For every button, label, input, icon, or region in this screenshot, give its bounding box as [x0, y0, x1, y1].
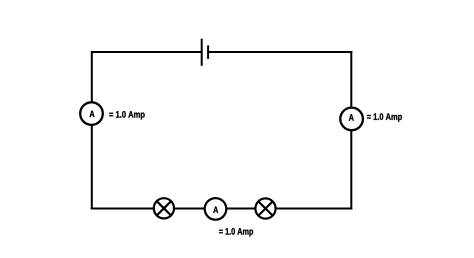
label A3 value = 1.0 Amp: [219, 228, 253, 237]
wire bottom segment ammeter A3 to lamp L2: [226, 208, 255, 210]
wire right upper segment: [350, 51, 352, 108]
label A2 value = 1.0 Amp: [367, 113, 402, 122]
wire top-left segment: [91, 51, 201, 53]
wire right lower segment: [350, 130, 352, 210]
battery B1 short plate (negative): [207, 45, 209, 59]
label A1 value = 1.0 Amp: [109, 111, 144, 120]
wire left upper segment: [91, 51, 93, 103]
wire bottom segment lamp L1 to ammeter A3: [174, 208, 205, 210]
ammeter A3: [205, 198, 227, 220]
wire left lower segment: [91, 125, 93, 210]
wire bottom-right segment: [276, 208, 353, 210]
lamp L1: [154, 198, 174, 218]
ammeter A1: [80, 102, 103, 125]
wire bottom-left segment: [91, 208, 154, 210]
lamp L2: [255, 198, 275, 218]
battery B1 long plate (positive): [201, 39, 203, 66]
ammeter A2: [340, 108, 363, 131]
wire top-right segment: [208, 51, 352, 53]
